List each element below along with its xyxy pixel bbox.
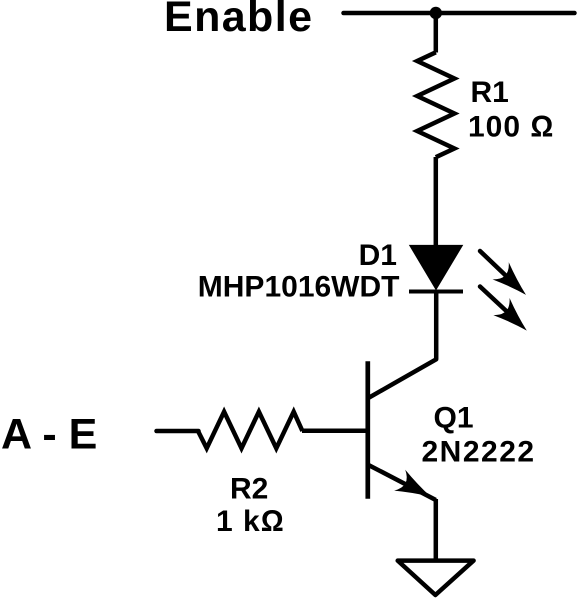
svg-text:D1: D1: [359, 239, 397, 272]
wire D1 cathode to Q1 collector: [368, 292, 436, 399]
svg-text:100 Ω: 100 Ω: [468, 111, 554, 144]
svg-text:Q1: Q1: [434, 402, 474, 435]
LED D1: [409, 245, 463, 291]
wire junction to R1: [434, 13, 439, 53]
wire R1 to D1 anode: [434, 157, 439, 246]
svg-text:R2: R2: [230, 473, 268, 506]
ground: [398, 561, 474, 595]
resistor R1: [417, 52, 454, 157]
wire top rail: [344, 11, 575, 16]
wire A-E to R2: [157, 429, 199, 434]
wire Q1 emitter to ground: [434, 499, 439, 560]
LED light arrow 1: [480, 251, 534, 303]
wire R2 to Q1 base: [302, 429, 368, 434]
svg-text:1 kΩ: 1 kΩ: [216, 505, 285, 538]
svg-text:Enable: Enable: [164, 0, 313, 41]
svg-text:A - E: A - E: [1, 411, 97, 459]
junction dot at top node: [430, 7, 442, 19]
resistor R2: [198, 412, 302, 449]
svg-text:MHP1016WDT: MHP1016WDT: [198, 271, 400, 304]
LED light arrow 2: [480, 287, 535, 340]
transistor Q1: [368, 361, 436, 507]
svg-text:R1: R1: [471, 76, 509, 109]
svg-text:2N2222: 2N2222: [422, 436, 536, 469]
